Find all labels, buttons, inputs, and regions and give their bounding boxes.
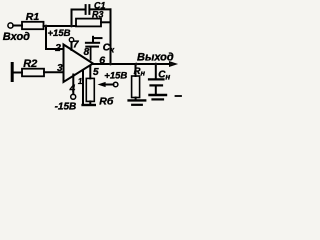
wire ground to R2 [14, 72, 22, 74]
-15V terminal [71, 94, 76, 99]
node inverting input junction [45, 25, 48, 28]
ground [11, 64, 14, 81]
resistor R3 [76, 19, 101, 27]
svg-text:Rн: Rн [134, 66, 146, 78]
wire to pin 2 [46, 26, 64, 49]
wire pin3 [44, 71, 64, 73]
ground [129, 99, 146, 101]
wire output [93, 63, 170, 65]
wire node to C1 branch [71, 10, 73, 27]
svg-text:R3: R3 [92, 10, 104, 20]
wire pin 7 [71, 42, 73, 50]
svg-text:6: 6 [99, 54, 105, 66]
svg-text:R2: R2 [23, 58, 37, 70]
output arrow [170, 62, 177, 67]
wire pin 5 [89, 67, 91, 79]
capacitor C1 [86, 5, 90, 14]
wire output to Rн [135, 64, 137, 76]
ground [150, 94, 167, 96]
wire pin 4 [72, 75, 74, 95]
op-amp U1 [64, 45, 94, 83]
svg-text:Rб: Rб [99, 95, 114, 107]
svg-text:Вход: Вход [3, 31, 30, 43]
wire C1 right plate to output branch [90, 8, 111, 10]
wire Rб bottom stub [89, 101, 91, 104]
wire Rн to ground [135, 98, 137, 100]
wire pin 1 [82, 71, 84, 106]
wire R1 to R3 (inverting input node) [44, 25, 77, 27]
input terminal Вход [8, 23, 13, 28]
svg-text:4: 4 [69, 84, 76, 95]
svg-text:1: 1 [78, 77, 83, 86]
node C1 branch junction [70, 25, 73, 28]
wire to C1 left plate [72, 9, 85, 11]
svg-text:2: 2 [54, 43, 61, 54]
svg-text:8: 8 [84, 47, 90, 58]
resistor Rб [86, 78, 94, 101]
svg-text:+15В: +15В [104, 71, 127, 82]
wire Сн to ground [155, 87, 157, 94]
resistor Rн [132, 76, 140, 98]
svg-text:+15В: +15В [48, 28, 71, 39]
svg-text:5: 5 [93, 67, 99, 78]
capacitor Сн [149, 79, 164, 85]
svg-text:Выход: Выход [137, 52, 174, 64]
capacitor Ск [86, 37, 102, 60]
+15V terminal (bias) [113, 82, 118, 87]
+15V terminal [69, 38, 73, 42]
artifact dash [176, 95, 182, 97]
svg-text:-15В: -15В [55, 101, 77, 112]
node Сн junction [154, 63, 157, 66]
wire feedback vertical [110, 9, 112, 64]
resistor R1 [22, 22, 44, 29]
wire +15V arrow [104, 84, 113, 86]
wire bottom bar pin1 to Rб [83, 104, 95, 106]
svg-text:3: 3 [57, 63, 63, 74]
svg-text:7: 7 [73, 40, 79, 51]
wire output to Сн [155, 64, 157, 78]
node output junction [109, 63, 112, 66]
svg-text:R1: R1 [26, 11, 40, 23]
wire R3 to output branch [101, 21, 111, 23]
wire input to R1 [13, 25, 22, 27]
resistor R2 [22, 69, 44, 77]
node Rн junction [135, 63, 138, 66]
